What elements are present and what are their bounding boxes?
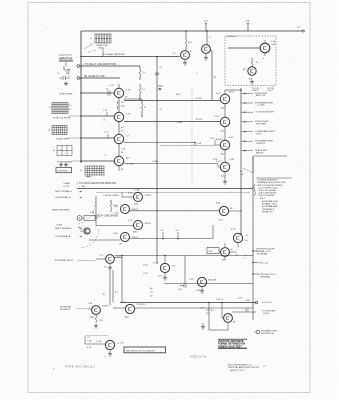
transistor Q20 — [134, 221, 143, 230]
svg-text:TERMINAL: TERMINAL — [260, 275, 271, 278]
svg-text:+ C1B: + C1B — [79, 186, 86, 188]
marks below input network — [67, 69, 71, 71]
wire Q3 base row — [81, 137, 114, 139]
transistor Q8 — [220, 162, 229, 171]
svg-text:C1A: C1A — [208, 250, 213, 253]
svg-text:SHIFT SIGNAL B: SHIFT SIGNAL B — [55, 190, 72, 193]
svg-text:+C2A: +C2A — [134, 189, 140, 192]
svg-text:1.5B 2.2: 1.5B 2.2 — [216, 299, 224, 301]
wire Q6 Q7 chain — [224, 127, 226, 141]
input network above row A — [65, 62, 67, 66]
wire light row 335 — [85, 335, 108, 337]
terminal row A — [77, 65, 80, 68]
transistor Q11 — [260, 43, 270, 53]
svg-text:1.5B: 1.5B — [122, 302, 127, 304]
wire right bus — [240, 88, 242, 233]
wire x213 down — [212, 225, 214, 239]
svg-text:B.1: B.1 — [211, 310, 214, 312]
wire mid bus light — [96, 192, 250, 194]
dashed box — [225, 36, 276, 86]
svg-text:LOW SIGNAL A: LOW SIGNAL A — [55, 235, 71, 238]
transistor Q10 — [202, 45, 211, 54]
wire Q2 out — [124, 121, 220, 123]
wire Q10 up — [206, 31, 208, 45]
capacitor C30 — [180, 285, 184, 287]
svg-text:4.7%: 4.7% — [214, 116, 219, 118]
wire box left 185 — [184, 256, 186, 284]
label A arrow to delay line — [84, 44, 93, 50]
svg-text:B2B: B2B — [133, 232, 138, 234]
wire vert x209 x222 — [208, 303, 210, 331]
transistor Q18 — [134, 193, 143, 202]
svg-text:RED: RED — [90, 317, 95, 319]
svg-text:+ TO DELAY LINE RESISTORS: + TO DELAY LINE RESISTORS — [83, 63, 117, 66]
svg-text:B2A: B2A — [134, 203, 139, 206]
svg-text:RESISTOR: RESISTOR — [262, 211, 273, 213]
svg-text:VERTICAL AMPLIFIER CIRCUIT: VERTICAL AMPLIFIER CIRCUIT — [228, 366, 260, 369]
wire Q7 base stub — [215, 144, 220, 146]
coax connector J1 — [77, 216, 82, 221]
svg-text:1.5B: 1.5B — [87, 341, 92, 343]
attenuator block B4 — [85, 166, 104, 175]
resistor R40 — [110, 200, 112, 212]
svg-text:A-DELAY LINE DRIVER: A-DELAY LINE DRIVER — [94, 215, 119, 218]
dashed arc coax 2 — [80, 229, 99, 248]
svg-text:V605: V605 — [98, 48, 103, 50]
svg-text:2N123: 2N123 — [102, 306, 109, 308]
wire trigger rows — [253, 250, 258, 252]
transistor Q19 — [121, 205, 130, 214]
wire mid bus 188 — [77, 188, 253, 190]
signal arrow row 7 — [241, 150, 253, 152]
svg-text:1%: 1% — [256, 62, 259, 64]
svg-text:SHEET 1 OF 2: SHEET 1 OF 2 — [230, 370, 245, 372]
terminal 302 end — [255, 301, 257, 303]
wire bus 302 — [120, 302, 255, 304]
svg-text:L73 1: L73 1 — [143, 265, 149, 267]
resistor R1 inline — [107, 91, 109, 96]
transistor Q6 — [220, 117, 229, 126]
svg-text:▾: ▾ — [263, 57, 264, 60]
svg-text:4.7K: 4.7K — [126, 114, 131, 116]
transistor Q2 — [114, 112, 123, 121]
wire Q16 top — [164, 256, 166, 264]
svg-text:2.2K: 2.2K — [213, 159, 218, 161]
wire Q26 base — [113, 307, 125, 309]
adjust label box — [56, 168, 72, 173]
resistor R21 — [139, 84, 141, 96]
transistor Q7 — [220, 140, 229, 149]
signal arrow row 4 — [241, 121, 253, 123]
svg-text:+12V: +12V — [237, 298, 243, 300]
transistor Q25 — [92, 306, 101, 315]
wire box bottom 283 — [164, 283, 253, 285]
svg-text:1.0%: 1.0% — [210, 138, 215, 140]
ground Q10 — [205, 53, 207, 56]
svg-text:MODEL 25 Thru: MODEL 25 Thru — [190, 356, 208, 359]
wire vert x110 x113 — [109, 270, 111, 306]
svg-text:OBTAINED WITH 20,000 OHM: OBTAINED WITH 20,000 OHM — [257, 181, 286, 184]
wire vert x122 — [121, 256, 123, 303]
transistor Q17 — [197, 277, 206, 286]
svg-text:4.7K: 4.7K — [126, 90, 131, 92]
transistor Q29 — [224, 314, 233, 323]
delay block stub — [102, 48, 104, 57]
wire Q4 out — [124, 163, 218, 165]
wire Q1 base row — [81, 92, 114, 94]
dashed arc coax 1 — [78, 198, 96, 224]
svg-text:A.07B: A.07B — [216, 138, 222, 141]
wire Q27 base — [85, 343, 105, 345]
svg-text:TERMINAL STRIP: TERMINAL STRIP — [261, 329, 278, 332]
svg-text:1.5K: 1.5K — [99, 320, 104, 322]
transistor Q9 — [181, 51, 190, 60]
svg-text:AMP V.34: AMP V.34 — [256, 94, 266, 97]
transistor Q14 — [233, 233, 242, 242]
svg-text:C5A: C5A — [113, 232, 118, 235]
svg-text:NORMAL +B TO: NORMAL +B TO — [256, 250, 272, 253]
svg-text:1.5K: 1.5K — [114, 213, 119, 215]
transistor Q1 — [114, 88, 123, 97]
transistor Q21 — [121, 233, 130, 242]
wire block A1 to bus — [68, 115, 81, 117]
svg-text:B 125: B 125 — [256, 133, 262, 135]
svg-text:TERMINAL B: TERMINAL B — [262, 208, 275, 211]
svg-text:EXTERNAL HOR: EXTERNAL HOR — [262, 200, 278, 203]
wire Q2 emitter chain — [118, 122, 120, 135]
wire Q2 base row — [81, 115, 114, 117]
svg-text:EXTERNAL INPUT: EXTERNAL INPUT — [55, 259, 74, 262]
wire mid 216 — [130, 210, 220, 212]
wire Q18 base — [122, 196, 134, 198]
svg-text:+350 V NO SIGNAL: +350 V NO SIGNAL — [258, 189, 277, 192]
transistor Q4 — [114, 156, 123, 165]
svg-text:TO +B .05: TO +B .05 — [262, 302, 272, 304]
svg-text:1.7MΩ: 1.7MΩ — [176, 122, 183, 124]
svg-text:LEFT AMP: LEFT AMP — [256, 123, 266, 126]
svg-text:NE +B DELAY LINE: NE +B DELAY LINE — [84, 75, 105, 78]
svg-text:47K: 47K — [121, 106, 125, 108]
svg-text:UNKNOWN WIRE: UNKNOWN WIRE — [52, 210, 70, 212]
transistor Q26 — [125, 304, 134, 313]
svg-text:1.5K: 1.5K — [88, 303, 93, 305]
transistor Q13 — [219, 206, 228, 215]
signal arrow row 3 — [241, 111, 253, 113]
svg-text:52: 52 — [144, 107, 146, 109]
wire H2 — [81, 56, 180, 58]
wire inside box to Q11 — [228, 47, 260, 49]
svg-text:2N123: 2N123 — [145, 223, 152, 225]
svg-text:V.34 B: V.34 B — [263, 313, 270, 315]
wire Q29 base — [221, 314, 223, 318]
svg-text:TO DELAY NETWORK: TO DELAY NETWORK — [103, 53, 125, 56]
svg-text:2N123: 2N123 — [145, 195, 152, 197]
svg-text:C1: C1 — [57, 73, 59, 75]
terminal strip symbol — [256, 330, 260, 334]
transistor Q3 — [114, 134, 123, 143]
wire Q8 emitter — [224, 172, 226, 180]
svg-text:COAX: COAX — [56, 224, 63, 227]
wire vert x96 — [95, 196, 97, 226]
svg-text:A RED WIRE: A RED WIRE — [60, 92, 73, 95]
signal arrow row 1 — [241, 93, 253, 95]
wire R21 to Q1 area — [139, 96, 141, 99]
wire left bus vertical — [80, 31, 82, 163]
wire Q1 emitter chain — [118, 98, 120, 113]
svg-text:TO A +.5.B: TO A +.5.B — [258, 261, 269, 264]
svg-text:+ TO FOCUS RESISTORS RESIST: + TO FOCUS RESISTORS RESISTOR — [77, 183, 117, 185]
svg-text:A B 1: A B 1 — [260, 197, 266, 200]
svg-text:AMP B7: AMP B7 — [256, 151, 264, 154]
ground Q25 — [94, 324, 98, 328]
resistor R30 — [185, 36, 187, 50]
svg-text:4.7K: 4.7K — [128, 193, 133, 195]
svg-text:NORMAL +B TO: NORMAL +B TO — [262, 203, 278, 206]
svg-text:EXTERNAL AMP: EXTERNAL AMP — [262, 205, 278, 208]
wire Q23 stub — [96, 258, 106, 260]
svg-text:+CON: +CON — [63, 186, 69, 188]
component box B1 — [207, 248, 219, 254]
svg-text:C.05: C.05 — [200, 308, 204, 310]
wire Q5 Q6 chain — [224, 104, 226, 118]
transistor Q22 small — [84, 228, 90, 234]
svg-text:TO VERT AMP: TO VERT AMP — [262, 310, 276, 313]
wire Q4 base row — [81, 160, 114, 162]
wire right bus lower — [252, 157, 254, 320]
wire Q11 emitter — [264, 53, 266, 56]
attenuator block A1 — [52, 103, 68, 114]
wire row 240 — [89, 239, 120, 241]
svg-text:C4A: C4A — [271, 43, 276, 46]
wire row 238 — [130, 238, 214, 240]
svg-text:1.5MΩ: 1.5MΩ — [152, 161, 159, 163]
wire Q5 collector — [224, 90, 226, 94]
svg-text:2N123 A: 2N123 A — [208, 279, 217, 282]
svg-text:1.5K: 1.5K — [271, 41, 276, 43]
speckle marks — [46, 27, 49, 30]
transistor Q23 — [106, 255, 115, 264]
wire Q14 up — [237, 243, 239, 247]
wire row Q1 out — [124, 100, 220, 102]
ground below C1 — [64, 82, 68, 86]
signal arrow row 6 — [241, 140, 253, 142]
delay line block T1 — [95, 34, 111, 43]
ground Q16 — [164, 273, 166, 276]
resistor R22 — [141, 101, 143, 114]
svg-text:EXTERNAL: EXTERNAL — [257, 253, 269, 256]
wire block A3 to bus — [72, 160, 81, 162]
wire Q29 emitter loop — [227, 322, 229, 330]
ground Q27 — [109, 350, 111, 352]
transistor Q5 — [220, 94, 229, 103]
wire mid 225 — [96, 225, 134, 227]
capacitor marks on center vertical — [155, 72, 159, 74]
svg-text:MODEL 1: MODEL 1 — [227, 36, 237, 38]
attenuator block A3 — [57, 146, 72, 156]
svg-text:SIGNAL B: SIGNAL B — [60, 308, 70, 311]
svg-text:+1.2 B: +1.2 B — [117, 343, 124, 345]
svg-text:+GAIN: +GAIN — [63, 182, 70, 185]
signal arrow row 5 — [241, 131, 253, 133]
terminal row B — [77, 77, 80, 80]
svg-text:LOW FREQ: LOW FREQ — [57, 170, 68, 172]
wire Q3 out — [124, 142, 195, 144]
svg-text:J-DELAY LINE B: J-DELAY LINE B — [103, 194, 120, 197]
svg-text:A B C: A B C — [87, 175, 93, 178]
svg-text:+125 V SUPPLY ADJ: +125 V SUPPLY ADJ — [258, 186, 277, 189]
tick above top bus 1 — [205, 23, 207, 31]
wire top bus — [81, 30, 302, 32]
svg-text:5+3.6: 5+3.6 — [153, 263, 159, 265]
wire Q7 Q8 chain — [224, 150, 226, 163]
wire Q10 right down — [210, 50, 212, 52]
svg-text:⊕: ⊕ — [231, 248, 233, 251]
parts list stamp box — [124, 347, 166, 353]
wire Q1 collector up — [118, 84, 120, 88]
svg-text:GROUND LUG: GROUND LUG — [261, 333, 275, 335]
svg-text:UPPER B: UPPER B — [256, 143, 266, 145]
svg-text:V.34 B: V.34 B — [252, 90, 259, 92]
wire Q3 emitter chain — [118, 144, 120, 157]
transistor Q12 — [248, 67, 256, 75]
svg-text:4B: 4B — [158, 87, 162, 91]
svg-text:V.34 C: V.34 C — [267, 90, 274, 92]
svg-text:TYPE 543 OSCILL: TYPE 543 OSCILL — [65, 365, 95, 369]
wire row A — [81, 65, 140, 67]
svg-text:B 70%: B 70% — [196, 119, 202, 121]
svg-text:1 C.A: 1 C.A — [96, 340, 102, 343]
ground Q9 — [184, 59, 186, 61]
svg-text:1.7K: 1.7K — [121, 149, 126, 151]
wire row B — [81, 77, 120, 79]
svg-text:SHIFT SIGNAL A: SHIFT SIGNAL A — [55, 227, 72, 230]
svg-text:⊕ WHITE WIRE: ⊕ WHITE WIRE — [57, 160, 73, 163]
svg-text:A.B.1 INSTRUMENT CO.: A.B.1 INSTRUMENT CO. — [228, 364, 253, 367]
terminal at top bus right end — [302, 30, 304, 32]
ground Q23 — [109, 263, 111, 266]
wire Q13 collector — [229, 210, 241, 212]
svg-text:EXTERNAL: EXTERNAL — [60, 306, 72, 309]
svg-text:4.7K: 4.7K — [87, 347, 92, 349]
capacitor C1 row B — [59, 77, 63, 79]
svg-text:C.5B: C.5B — [245, 300, 250, 302]
wire Q26 out — [135, 307, 253, 309]
transistor Q16 — [160, 263, 169, 272]
resistor R31 — [251, 58, 253, 67]
svg-text:.05: .05 — [67, 73, 70, 75]
wire right notes line — [253, 155, 287, 157]
svg-text:1.5M: 1.5M — [229, 159, 234, 161]
svg-text:1.5: 1.5 — [69, 105, 72, 107]
svg-text:L73 1: L73 1 — [143, 273, 149, 275]
svg-text:-SAWTOOTH-: -SAWTOOTH- — [58, 54, 73, 57]
svg-text:B4: B4 — [233, 322, 235, 324]
wire Q4 emitter down — [118, 166, 120, 171]
svg-text:B 201: B 201 — [196, 98, 202, 100]
grounds above adj box — [59, 163, 63, 167]
svg-text:C 2N123 +: C 2N123 + — [136, 304, 147, 306]
svg-text:LOW SIGNAL B: LOW SIGNAL B — [55, 196, 71, 199]
dashed vertical separator — [191, 88, 193, 182]
wire Q15 links — [219, 251, 221, 253]
svg-text:1.5K: 1.5K — [90, 212, 95, 214]
wire center vertical — [156, 57, 158, 264]
wire box top 255 — [115, 255, 253, 257]
svg-text:4.7Ω: 4.7Ω — [231, 229, 236, 231]
transistor Q15 — [221, 248, 230, 257]
svg-text:4.7K: 4.7K — [128, 220, 133, 222]
svg-text:SEE PARTS LIST FOR VALUES: SEE PARTS LIST FOR VALUES — [126, 349, 156, 352]
attenuator block A2 — [52, 126, 67, 135]
wire Q7 row light — [160, 145, 215, 147]
junction ticks row 238 — [162, 238, 164, 240]
svg-text:TO B PLATE RIGHT: TO B PLATE RIGHT — [255, 111, 275, 114]
svg-text:5.6K: 5.6K — [197, 143, 202, 145]
transistor Q27 — [105, 340, 114, 349]
resistor R20 — [139, 66, 141, 80]
resistor R50 — [95, 314, 97, 323]
svg-text:⊕ NE 1.5K FROM: ⊕ NE 1.5K FROM — [53, 116, 70, 119]
wire Q8 base — [217, 164, 219, 168]
svg-text:+ 1.2 MΩ: + 1.2 MΩ — [256, 105, 265, 107]
ground Q12 — [250, 80, 254, 84]
tick above top bus 2 — [247, 23, 249, 31]
signal arrow row 2 — [241, 102, 253, 104]
wire Q25 base — [88, 308, 92, 310]
svg-text:VOLTAGE READINGS: VOLTAGE READINGS — [257, 179, 278, 182]
ground Q17 — [201, 287, 203, 289]
svg-text:B125: B125 — [229, 92, 235, 94]
wire block A2 to bus — [67, 137, 81, 139]
svg-text:C2: C2 — [69, 109, 71, 111]
